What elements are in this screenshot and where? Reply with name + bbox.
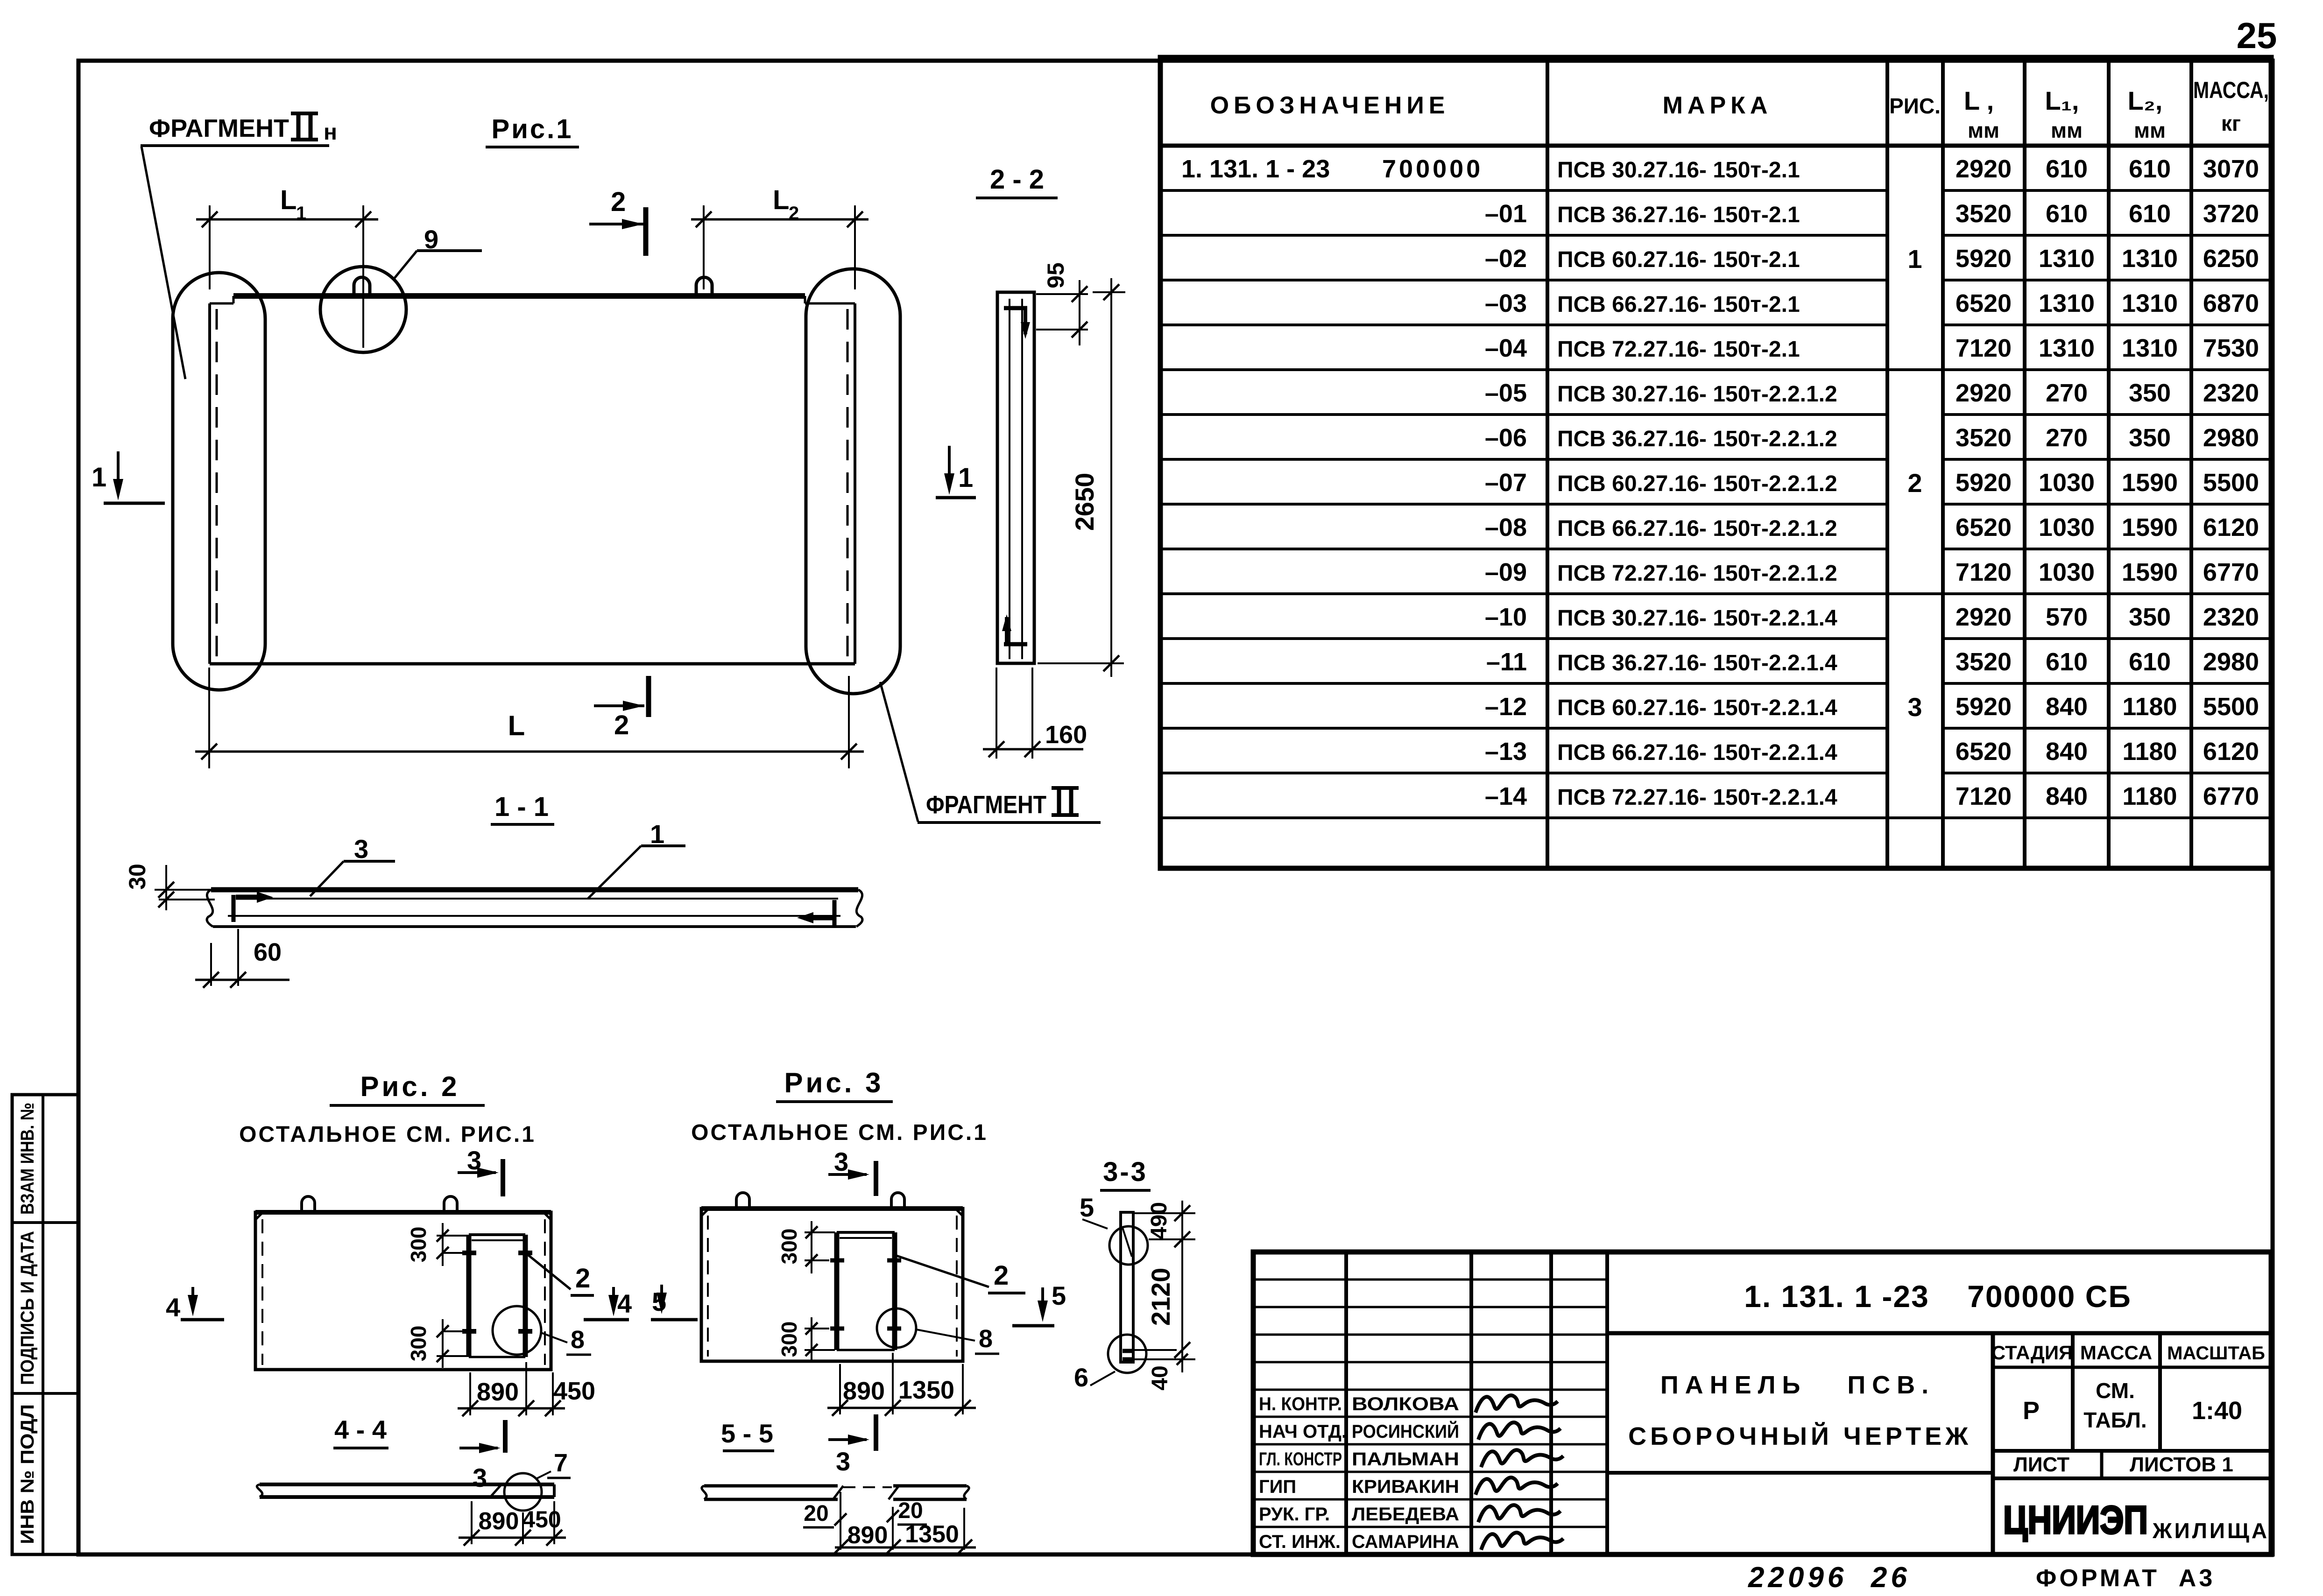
svg-text:5: 5 — [1080, 1193, 1094, 1222]
svg-text:6770: 6770 — [2203, 558, 2259, 586]
svg-text:3520: 3520 — [1956, 648, 2012, 676]
label 5 of 3-3 — [1080, 1193, 1108, 1229]
title block outer border — [1253, 1252, 2271, 1554]
svg-text:1. 131. 1 - 23: 1. 131. 1 - 23 — [1181, 155, 1330, 183]
svg-text:3: 3 — [834, 1147, 848, 1176]
dimension 60 — [195, 929, 289, 988]
svg-text:1180: 1180 — [2122, 693, 2177, 721]
leader line fragment IIн to left oval — [141, 147, 185, 379]
dimension 95 — [1036, 262, 1088, 345]
values Р СМ.ТАБЛ 1:40 — [2023, 1378, 2242, 1432]
dimension 40 of 3-3 — [1134, 1350, 1188, 1391]
svg-text:КРИВАКИН: КРИВАКИН — [1352, 1476, 1459, 1497]
svg-text:4 - 4: 4 - 4 — [334, 1415, 387, 1444]
svg-text:22096 26: 22096 26 — [1748, 1561, 1911, 1594]
svg-text:5920: 5920 — [1956, 693, 2012, 721]
label 6 of 3-3 — [1074, 1363, 1115, 1392]
section marker 5 right of Рис.3 — [1012, 1281, 1066, 1326]
svg-text:1310: 1310 — [2039, 334, 2095, 362]
svg-text:ПСВ 36.27.16- 150т-2.2.1.4: ПСВ 36.27.16- 150т-2.2.1.4 — [1557, 651, 1837, 675]
svg-text:L: L — [508, 710, 525, 741]
svg-text:L ,: L , — [1964, 86, 1994, 115]
svg-text:мм: мм — [2051, 118, 2083, 142]
svg-text:1: 1 — [296, 203, 306, 224]
svg-text:РУК. ГР.: РУК. ГР. — [1259, 1504, 1330, 1525]
svg-text:2120: 2120 — [1146, 1268, 1175, 1326]
svg-text:4: 4 — [617, 1289, 632, 1318]
svg-text:160: 160 — [1045, 721, 1087, 749]
svg-text:7120: 7120 — [1956, 558, 2012, 586]
svg-text:1030: 1030 — [2039, 558, 2095, 586]
svg-text:5920: 5920 — [1956, 469, 2012, 497]
svg-text:ГИП: ГИП — [1259, 1476, 1296, 1497]
detail circle 8 Рис.3 — [877, 1308, 916, 1348]
section marker 4 left — [166, 1287, 224, 1322]
title 5-5 — [721, 1419, 774, 1451]
svg-text:6870: 6870 — [2203, 289, 2259, 317]
svg-text:ОСТАЛЬНОЕ СМ. РИС.1: ОСТАЛЬНОЕ СМ. РИС.1 — [691, 1120, 988, 1145]
svg-text:2 - 2: 2 - 2 — [990, 164, 1044, 195]
svg-text:РИС.: РИС. — [1889, 94, 1941, 118]
svg-text:СТАДИЯ: СТАДИЯ — [1991, 1342, 2073, 1364]
svg-text:–11: –11 — [1486, 648, 1527, 676]
svg-text:ГЛ. КОНСТР: ГЛ. КОНСТР — [1259, 1449, 1342, 1469]
detail circle 7 of 4-4 — [504, 1473, 542, 1511]
title block vertical lines left part — [1346, 1252, 1607, 1554]
svg-text:САМАРИНА: САМАРИНА — [1352, 1532, 1459, 1552]
svg-text:ПСВ 66.27.16- 150т-2.1: ПСВ 66.27.16- 150т-2.1 — [1557, 292, 1800, 317]
svg-text:–04: –04 — [1485, 334, 1527, 362]
section marker 2 top — [589, 187, 646, 256]
svg-text:25: 25 — [2237, 15, 2277, 56]
dimension 300 bottom Рис.3 — [777, 1317, 835, 1361]
dimension 160 — [983, 668, 1087, 759]
table row texts — [1181, 155, 2259, 810]
detail circle 8 Рис.2 — [493, 1306, 541, 1355]
svg-text:Рис. 2: Рис. 2 — [360, 1071, 460, 1102]
svg-text:2: 2 — [575, 1263, 590, 1294]
svg-text:1 - 1: 1 - 1 — [494, 792, 549, 822]
svg-text:610: 610 — [2046, 648, 2088, 676]
svg-text:300: 300 — [406, 1326, 431, 1362]
panel Рис.3 dashed edges — [708, 1216, 957, 1357]
svg-text:2: 2 — [994, 1260, 1009, 1291]
svg-text:ПСВ 66.27.16- 150т-2.2.1.2: ПСВ 66.27.16- 150т-2.2.1.2 — [1557, 516, 1837, 541]
svg-text:Рис.1: Рис.1 — [492, 114, 573, 144]
title block row lines left part — [1253, 1280, 1607, 1527]
dimension L2 — [691, 185, 868, 289]
svg-text:МАССА,: МАССА, — [2193, 77, 2269, 103]
svg-text:2980: 2980 — [2203, 424, 2259, 452]
svg-text:3520: 3520 — [1956, 200, 2012, 228]
dimension 300 bottom Рис.2 — [406, 1319, 467, 1368]
fragment oval left — [173, 273, 265, 690]
section marker 5 right of Рис.2 — [651, 1285, 698, 1320]
svg-text:490: 490 — [1147, 1202, 1172, 1239]
anchor marks on opening Рис.3 — [830, 1260, 901, 1329]
svg-text:2920: 2920 — [1956, 155, 2012, 183]
svg-text:ЖИЛИЩА: ЖИЛИЩА — [2152, 1519, 2269, 1543]
svg-text:300: 300 — [777, 1229, 801, 1265]
detail circle 6 of 3-3 — [1108, 1335, 1146, 1373]
left stamp boxes — [12, 1095, 78, 1554]
section marker 3 bottom Рис.2 — [459, 1420, 505, 1492]
svg-text:60: 60 — [254, 938, 282, 966]
section 3-3 bar — [1121, 1212, 1133, 1362]
dimension 2120 of 3-3 — [1135, 1201, 1195, 1372]
svg-text:4: 4 — [166, 1293, 180, 1322]
section marker 1 right — [936, 446, 976, 498]
svg-text:2: 2 — [1907, 468, 1922, 498]
callout 9 label and leader — [394, 225, 482, 279]
callout 3 of 1-1 — [310, 834, 395, 896]
svg-text:ФОРМАТ А3: ФОРМАТ А3 — [2036, 1565, 2215, 1592]
dimension 20 right of 5-5 — [887, 1498, 927, 1550]
leader from right oval to ФРАГМЕНТ II — [880, 682, 918, 822]
opening in panel Рис.2 — [469, 1235, 525, 1357]
lifting loops Рис.3 — [736, 1193, 904, 1209]
dimension 30 — [124, 864, 215, 910]
callout 2 Рис.3 — [897, 1256, 1025, 1293]
svg-text:1. 131. 1 -23 700000 СБ: 1. 131. 1 -23 700000 СБ — [1744, 1279, 2132, 1314]
dimensions 890 1350 below Рис.3 — [827, 1353, 976, 1416]
dimensions 890 450 below Рис.2 — [458, 1362, 595, 1416]
svg-text:7120: 7120 — [1956, 782, 2012, 810]
dimensions 890 450 below 4-4 — [459, 1501, 566, 1546]
svg-text:МАРКА: МАРКА — [1663, 92, 1772, 119]
logo ЦНИИЭП ЖИЛИЩА — [2003, 1498, 2269, 1543]
anchor detail top of 2-2 — [1004, 308, 1030, 339]
svg-text:ЛИСТОВ 1: ЛИСТОВ 1 — [2130, 1453, 2233, 1476]
svg-text:–06: –06 — [1485, 424, 1527, 452]
anchor detail bottom of 2-2 — [1002, 614, 1027, 644]
svg-text:1030: 1030 — [2039, 469, 2095, 497]
svg-text:–05: –05 — [1485, 379, 1527, 407]
svg-text:300: 300 — [777, 1322, 801, 1357]
svg-text:270: 270 — [2046, 424, 2088, 452]
svg-text:2920: 2920 — [1956, 603, 2012, 631]
title 2-2 — [976, 164, 1058, 198]
lifting loop left — [354, 277, 370, 296]
svg-text:1310: 1310 — [2122, 245, 2178, 273]
svg-text:3720: 3720 — [2203, 200, 2259, 228]
svg-text:СТ. ИНЖ.: СТ. ИНЖ. — [1259, 1532, 1341, 1552]
svg-text:6: 6 — [1074, 1363, 1088, 1392]
svg-text:7: 7 — [554, 1449, 568, 1477]
leader and label 8 Рис.2 — [541, 1326, 591, 1355]
svg-text:L: L — [773, 185, 789, 215]
svg-text:570: 570 — [2046, 603, 2088, 631]
svg-text:2: 2 — [789, 203, 799, 224]
svg-text:1590: 1590 — [2122, 558, 2178, 586]
title block responsible persons — [1259, 1394, 1459, 1552]
svg-text:1350: 1350 — [905, 1521, 959, 1548]
svg-text:2650: 2650 — [1070, 473, 1099, 531]
svg-text:1: 1 — [650, 819, 664, 849]
svg-text:–07: –07 — [1485, 469, 1527, 497]
embedded angle mark right in 1-1 — [797, 900, 834, 925]
panel Рис.3 outline — [701, 1209, 963, 1361]
svg-text:ПСВ 72.27.16- 150т-2.2.1.4: ПСВ 72.27.16- 150т-2.2.1.4 — [1557, 785, 1837, 810]
panel Рис.2 outline — [255, 1212, 551, 1370]
svg-text:610: 610 — [2046, 155, 2088, 183]
svg-text:3: 3 — [473, 1463, 487, 1492]
dimension 300 top Рис.3 — [777, 1221, 835, 1273]
svg-text:700000: 700000 — [1382, 155, 1483, 183]
svg-text:5: 5 — [1052, 1281, 1066, 1310]
svg-text:Рис. 3: Рис. 3 — [784, 1067, 884, 1098]
svg-text:ПСВ 60.27.16- 150т-2.2.1.2: ПСВ 60.27.16- 150т-2.2.1.2 — [1557, 471, 1837, 496]
svg-text:СМ.: СМ. — [2096, 1378, 2135, 1403]
lifting loop right — [696, 277, 712, 296]
svg-text:–10: –10 — [1485, 603, 1527, 631]
svg-text:3520: 3520 — [1956, 424, 2012, 452]
svg-text:–01: –01 — [1485, 200, 1527, 228]
dimension 2650 — [1038, 278, 1125, 677]
svg-text:НАЧ ОТД.: НАЧ ОТД. — [1259, 1421, 1347, 1442]
svg-text:890: 890 — [479, 1508, 519, 1535]
svg-text:СБОРОЧНЫЙ ЧЕРТЕЖ: СБОРОЧНЫЙ ЧЕРТЕЖ — [1628, 1422, 1972, 1450]
svg-text:8: 8 — [979, 1325, 993, 1353]
section marker 1 left — [92, 451, 165, 503]
svg-text:ПСВ 30.27.16- 150т-2.1: ПСВ 30.27.16- 150т-2.1 — [1557, 158, 1800, 183]
svg-text:ФРАГМЕНТ: ФРАГМЕНТ — [926, 791, 1046, 819]
svg-text:6250: 6250 — [2203, 245, 2259, 273]
svg-text:20: 20 — [804, 1501, 828, 1526]
section 1-1 panel strip — [207, 890, 862, 927]
section marker 2 bottom — [594, 676, 649, 740]
lifting loops Рис.2 — [302, 1196, 457, 1212]
svg-text:L₁,: L₁, — [2045, 86, 2079, 115]
svg-text:кг: кг — [2221, 111, 2241, 135]
svg-text:350: 350 — [2129, 424, 2171, 452]
svg-text:6520: 6520 — [1956, 513, 2012, 541]
callout 1 of 1-1 — [588, 819, 685, 899]
svg-text:ОБОЗНАЧЕНИЕ: ОБОЗНАЧЕНИЕ — [1210, 92, 1450, 119]
svg-text:890: 890 — [847, 1522, 888, 1549]
dimension 490 of 3-3 — [1135, 1202, 1195, 1239]
svg-text:2320: 2320 — [2203, 379, 2259, 407]
anchor marks on opening Рис.2 — [462, 1253, 532, 1331]
svg-text:ЛИСТ: ЛИСТ — [2013, 1453, 2069, 1476]
section 4-4 strip — [257, 1484, 554, 1497]
svg-text:ПСВ 66.27.16- 150т-2.2.1.4: ПСВ 66.27.16- 150т-2.2.1.4 — [1557, 740, 1837, 765]
svg-text:1180: 1180 — [2122, 782, 2177, 810]
svg-text:5500: 5500 — [2203, 693, 2259, 721]
svg-text:3: 3 — [354, 834, 368, 864]
svg-text:ПСВ 30.27.16- 150т-2.2.1.4: ПСВ 30.27.16- 150т-2.2.1.4 — [1557, 606, 1837, 631]
svg-text:ПСВ 72.27.16- 150т-2.1: ПСВ 72.27.16- 150т-2.1 — [1557, 337, 1800, 362]
section marker 3 top Рис.3 — [828, 1147, 876, 1196]
svg-text:ПСВ 60.27.16- 150т-2.2.1.4: ПСВ 60.27.16- 150т-2.2.1.4 — [1557, 696, 1837, 720]
svg-text:610: 610 — [2046, 200, 2088, 228]
svg-text:610: 610 — [2129, 155, 2171, 183]
svg-text:8: 8 — [571, 1326, 585, 1354]
title Рис. 2 — [330, 1071, 485, 1105]
title 4-4 — [333, 1415, 388, 1448]
table row lines — [1160, 190, 2271, 818]
svg-text:450: 450 — [522, 1506, 561, 1533]
svg-text:1: 1 — [1907, 244, 1922, 274]
svg-text:840: 840 — [2046, 782, 2088, 810]
table column lines — [1547, 57, 2191, 868]
svg-text:–13: –13 — [1485, 738, 1527, 766]
svg-text:840: 840 — [2046, 693, 2088, 721]
svg-text:1030: 1030 — [2039, 513, 2095, 541]
svg-text:270: 270 — [2046, 379, 2088, 407]
labels ЛИСТ ЛИСТОВ 1 — [2013, 1453, 2233, 1476]
svg-text:ВЗАМ ИНВ. №: ВЗАМ ИНВ. № — [17, 1103, 38, 1215]
section 5-5 strip — [702, 1486, 969, 1499]
section 2-2 panel strip — [997, 292, 1034, 663]
svg-text:L: L — [280, 185, 297, 215]
title Рис. 3 — [776, 1067, 893, 1102]
svg-text:6770: 6770 — [2203, 782, 2259, 810]
table header bottom line — [1160, 144, 2271, 148]
svg-text:1310: 1310 — [2039, 289, 2095, 317]
svg-text:Р: Р — [2023, 1397, 2040, 1425]
svg-text:ПАЛЬМАН: ПАЛЬМАН — [1352, 1449, 1459, 1469]
svg-text:–12: –12 — [1485, 693, 1527, 721]
fragment oval right — [806, 269, 900, 694]
dimensions 890 1350 below 5-5 — [833, 1508, 976, 1555]
callout circle 9 — [320, 267, 406, 352]
svg-text:–02: –02 — [1485, 245, 1527, 273]
svg-text:3-3: 3-3 — [1103, 1157, 1148, 1187]
dimension 20 left of 5-5 — [803, 1492, 847, 1550]
dimension L1 — [196, 185, 378, 348]
svg-text:2: 2 — [614, 710, 629, 740]
svg-text:840: 840 — [2046, 738, 2088, 766]
hidden dashed edges of panel — [217, 309, 847, 661]
dimension L bottom — [195, 668, 864, 768]
svg-text:ФРАГМЕНТ: ФРАГМЕНТ — [149, 114, 289, 142]
dimension 300 top Рис.2 — [406, 1223, 467, 1266]
title block main dividers — [1607, 1333, 2271, 1554]
svg-text:–14: –14 — [1485, 782, 1527, 810]
svg-text:L₂,: L₂, — [2128, 86, 2163, 115]
embedded angle mark left in 1-1 — [233, 892, 273, 922]
svg-text:1350: 1350 — [898, 1376, 954, 1404]
svg-text:610: 610 — [2129, 648, 2171, 676]
svg-text:ПСВ 36.27.16- 150т-2.2.1.2: ПСВ 36.27.16- 150т-2.2.1.2 — [1557, 427, 1837, 451]
svg-text:ПАНЕЛЬ ПСВ.: ПАНЕЛЬ ПСВ. — [1660, 1371, 1935, 1399]
svg-text:ЦНИИЭП: ЦНИИЭП — [2003, 1498, 2148, 1542]
svg-text:95: 95 — [1043, 262, 1069, 288]
svg-text:5920: 5920 — [1956, 245, 2012, 273]
svg-text:350: 350 — [2129, 379, 2171, 407]
labels СТАДИЯ МАССА МАСШТАБ — [1991, 1342, 2265, 1364]
svg-text:30: 30 — [124, 864, 150, 890]
opening in panel Рис.3 — [837, 1232, 895, 1350]
title ФРАГМЕНТ II н — [141, 113, 337, 146]
title 3-3 — [1100, 1157, 1151, 1190]
svg-text:ЛЕБЕДЕВА: ЛЕБЕДЕВА — [1352, 1504, 1459, 1525]
svg-text:3: 3 — [1907, 692, 1922, 722]
panel Рис.2 dashed edges — [262, 1219, 545, 1365]
svg-text:–09: –09 — [1485, 558, 1527, 586]
svg-text:ТАБЛ.: ТАБЛ. — [2083, 1408, 2146, 1432]
svg-text:ИНВ № ПОДЛ: ИНВ № ПОДЛ — [17, 1404, 38, 1544]
svg-text:6520: 6520 — [1956, 738, 2012, 766]
detail circle 5 of 3-3 — [1109, 1226, 1148, 1265]
svg-text:мм: мм — [1968, 118, 1999, 142]
svg-text:1: 1 — [958, 463, 973, 493]
svg-text:1180: 1180 — [2122, 738, 2177, 766]
title 1-1 — [491, 792, 554, 824]
svg-text:ВОЛКОВА: ВОЛКОВА — [1352, 1394, 1459, 1414]
svg-text:40: 40 — [1148, 1365, 1172, 1390]
svg-text:300: 300 — [406, 1227, 431, 1263]
svg-text:ПОДПИСЬ И ДАТА: ПОДПИСЬ И ДАТА — [17, 1231, 38, 1385]
svg-text:5500: 5500 — [2203, 469, 2259, 497]
svg-text:1:40: 1:40 — [2192, 1397, 2242, 1425]
svg-text:20: 20 — [898, 1498, 923, 1523]
table outer border — [1160, 57, 2271, 868]
section marker 4 right — [584, 1287, 632, 1320]
svg-text:1590: 1590 — [2122, 513, 2178, 541]
svg-text:ПСВ 36.27.16- 150т-2.1: ПСВ 36.27.16- 150т-2.1 — [1557, 203, 1800, 227]
svg-text:2320: 2320 — [2203, 603, 2259, 631]
svg-text:мм: мм — [2134, 118, 2166, 142]
svg-text:890: 890 — [843, 1377, 885, 1405]
svg-text:ПСВ 30.27.16- 150т-2.2.1.2: ПСВ 30.27.16- 150т-2.2.1.2 — [1557, 382, 1837, 407]
title Рис.1 — [486, 114, 579, 147]
svg-text:6120: 6120 — [2203, 513, 2259, 541]
svg-text:2980: 2980 — [2203, 648, 2259, 676]
svg-text:ПСВ 72.27.16- 150т-2.2.1.2: ПСВ 72.27.16- 150т-2.2.1.2 — [1557, 561, 1837, 586]
svg-text:1310: 1310 — [2039, 245, 2095, 273]
label 7 of 4-4 — [536, 1449, 571, 1479]
svg-text:–03: –03 — [1485, 289, 1527, 317]
title ФРАГМЕНТ II bottom — [918, 788, 1101, 823]
svg-text:2: 2 — [611, 187, 626, 217]
callout 2 Рис.2 — [527, 1254, 594, 1295]
svg-text:450: 450 — [553, 1377, 595, 1405]
svg-text:1590: 1590 — [2122, 469, 2178, 497]
svg-text:610: 610 — [2129, 200, 2171, 228]
svg-text:890: 890 — [477, 1378, 519, 1406]
section marker 3 bottom Рис.3 — [828, 1414, 876, 1476]
svg-text:6120: 6120 — [2203, 738, 2259, 766]
svg-text:1310: 1310 — [2122, 289, 2178, 317]
svg-text:1310: 1310 — [2122, 334, 2178, 362]
svg-text:5 - 5: 5 - 5 — [721, 1419, 773, 1448]
svg-text:7530: 7530 — [2203, 334, 2259, 362]
svg-text:1: 1 — [92, 462, 106, 492]
svg-text:н: н — [324, 120, 337, 145]
panel outline Рис.1 — [210, 296, 855, 664]
svg-text:3070: 3070 — [2203, 155, 2259, 183]
svg-text:3: 3 — [836, 1447, 850, 1476]
svg-text:ПСВ 60.27.16- 150т-2.1: ПСВ 60.27.16- 150т-2.1 — [1557, 247, 1800, 272]
svg-text:350: 350 — [2129, 603, 2171, 631]
svg-text:Н. КОНТР.: Н. КОНТР. — [1259, 1394, 1342, 1414]
svg-text:МАСШТАБ: МАСШТАБ — [2167, 1343, 2265, 1364]
svg-text:РОСИНСКИЙ: РОСИНСКИЙ — [1352, 1420, 1459, 1442]
svg-text:ОСТАЛЬНОЕ СМ. РИС.1: ОСТАЛЬНОЕ СМ. РИС.1 — [239, 1122, 536, 1147]
svg-text:6520: 6520 — [1956, 289, 2012, 317]
leader and label 8 Рис.3 — [916, 1325, 999, 1354]
svg-text:–08: –08 — [1485, 513, 1527, 541]
svg-text:2920: 2920 — [1956, 379, 2012, 407]
signatures — [1476, 1395, 1563, 1550]
section marker 3 top Рис.2 — [458, 1146, 503, 1196]
svg-text:МАССА: МАССА — [2080, 1342, 2152, 1364]
svg-text:7120: 7120 — [1956, 334, 2012, 362]
